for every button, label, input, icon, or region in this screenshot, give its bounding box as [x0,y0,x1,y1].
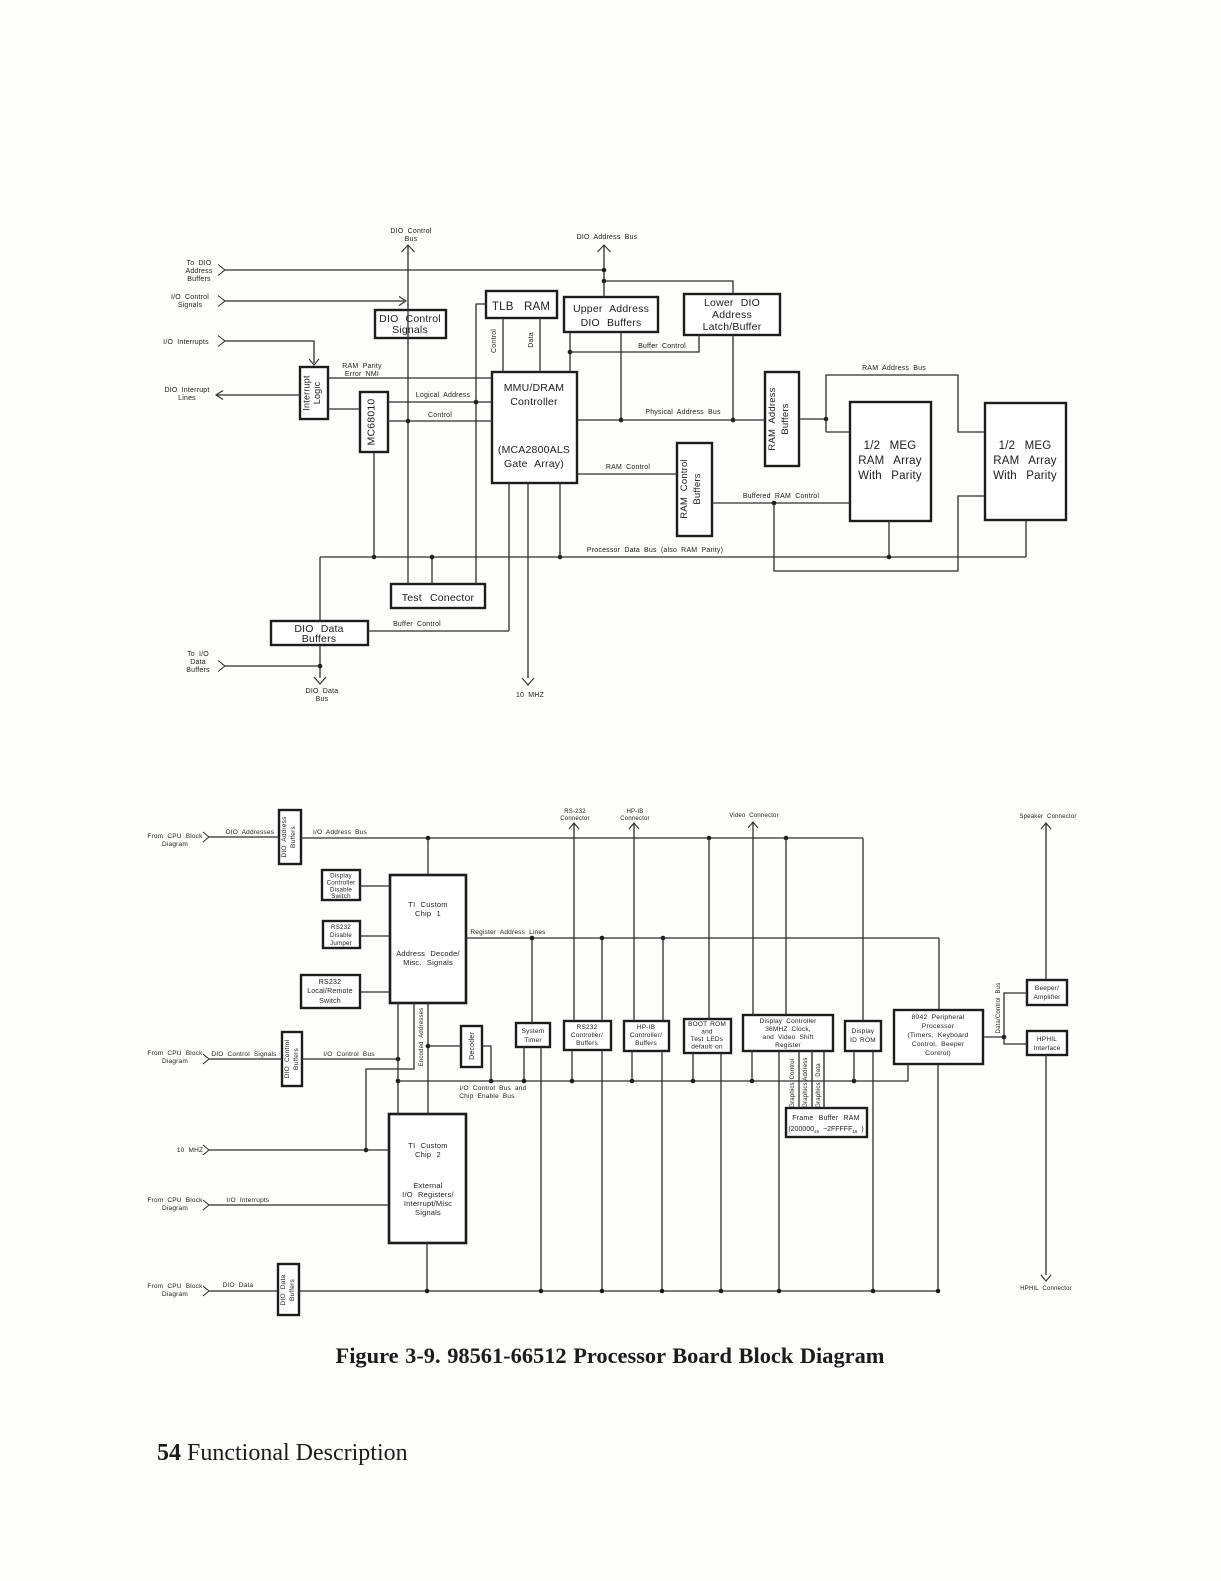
wire display ID ROM to control bus [853,1051,855,1081]
junction control bus / BOOT ROM [691,1079,696,1084]
svg-text:HPHIL: HPHIL [1037,1036,1057,1043]
junction register lines / RS232 [600,936,605,941]
block Upper Address DIO Buffers [564,297,658,332]
wire processor bus to DIO data buffers [319,557,321,621]
svg-text:I/O Control: I/O Control [171,294,209,301]
block HP-IB Controller/Buffers [624,1021,669,1051]
svg-text:Buffer Control: Buffer Control [393,621,441,628]
port I/O Interrupts [163,336,225,347]
wire Interrupt Logic to MC68010 [328,408,360,410]
svg-text:With Parity: With Parity [993,470,1057,482]
svg-text:default on: default on [691,1044,723,1051]
svg-text:1/2 MEG: 1/2 MEG [999,440,1052,452]
net Processor Data Bus [320,547,1026,557]
net DIO Control Bus (arrow up) with label [390,228,431,584]
junction RAM address bus split [824,417,829,422]
block Interrupt Logic [300,367,328,419]
junction 10MHz line [364,1148,369,1153]
svg-text:Buffers: Buffers [780,403,791,434]
junction control bus / chip-enable bus [396,1079,401,1084]
wire Graphics Control [790,1051,799,1108]
block 8042 Peripheral Processor [894,1010,983,1064]
svg-text:Interface: Interface [1033,1045,1060,1052]
svg-text:Buffers: Buffers [187,276,211,283]
wire Upper buffers to MMU [569,332,571,372]
wire I/O addr bus to TI Chip 1 [427,838,429,875]
svg-text:RAM Array: RAM Array [858,455,921,467]
junction DIO-control-bus / Control line [406,419,411,424]
svg-text:Local/Remote: Local/Remote [307,988,353,995]
junction data bus / display controller [777,1289,782,1294]
wire TLB Data line [528,318,540,372]
svg-text:Encoded Addresses: Encoded Addresses [419,1008,425,1067]
junction chip enable / decoder [489,1079,494,1084]
svg-text:Buffers: Buffers [692,473,703,504]
svg-text:RS-232: RS-232 [564,809,586,815]
block Frame Buffer RAM [786,1108,867,1137]
wire DIO Data input [209,1282,278,1291]
net DIO Address Bus (arrow up) with label [577,234,638,297]
block RS232 Controller/Buffers [564,1021,611,1050]
svg-text:Gate Array): Gate Array) [504,458,564,470]
svg-text:I/O Address Bus: I/O Address Bus [313,829,368,836]
junction physical bus / upper buffers [619,418,624,423]
junction DIO address bus / To-DIO line [602,268,607,273]
svg-text:Control: Control [428,412,452,419]
svg-text:BOOT ROM: BOOT ROM [688,1021,726,1028]
wire I/O Control Signals into DIO control bus [225,297,406,306]
wire To-DIO-Address-Buffers horizontal [225,269,604,271]
block TI Custom Chip 1 [390,875,466,1003]
wire RS232 to control bus [571,1050,573,1081]
junction data bus / display ID ROM [871,1289,876,1294]
svg-text:Control: Control [491,329,498,353]
svg-text:Bus: Bus [316,696,329,703]
block DIO Data Buffers (bottom diagram) [278,1264,299,1315]
svg-text:Error NMI: Error NMI [345,371,379,378]
svg-text:Timer: Timer [524,1037,542,1044]
svg-text:Signals: Signals [415,1208,441,1217]
svg-text:Diagram: Diagram [162,1058,188,1065]
port From CPU Block Diagram (addresses) [147,832,209,848]
wire To I/O Data Buffers [225,665,320,667]
svg-text:54 Functional Description: 54 Functional Description [157,1440,408,1466]
junction I/O control bus end [396,1057,401,1062]
net I/O Control Bus and Chip Enable Bus [398,1064,908,1100]
svg-text:Upper Address: Upper Address [573,303,649,315]
svg-text:8042 Peripheral: 8042 Peripheral [912,1014,965,1021]
junction control bus / RS232 [570,1079,575,1084]
wire system timer to data bus [540,1047,542,1291]
svg-text:Control, Beeper: Control, Beeper [912,1041,965,1048]
block System Timer [516,1023,550,1047]
svg-text:Disable: Disable [330,932,352,939]
svg-text:(Timers, Keyboard: (Timers, Keyboard [907,1032,968,1039]
svg-text:Controller: Controller [327,880,356,887]
svg-text:RAM Control: RAM Control [679,459,690,519]
svg-text:10 MHZ: 10 MHZ [177,1147,203,1154]
block Test Conector [391,584,485,608]
block RS232 Local/Remote Switch [301,975,360,1008]
wire I/O Interrupts into Interrupt Logic [225,341,319,365]
svg-text:Signals: Signals [178,302,203,309]
wire RS232 jumper to TI1 [360,935,390,937]
svg-text:Controller: Controller [510,396,558,408]
svg-text:and: and [701,1029,713,1036]
svg-text:Chip 2: Chip 2 [415,1150,441,1159]
svg-text:From CPU Block: From CPU Block [147,1283,203,1290]
wire RS-232 connector line [573,823,575,1021]
wire Graphics Address [803,1051,812,1108]
svg-text:DIO Control Signals: DIO Control Signals [211,1051,277,1058]
port 10 MHZ [177,1145,209,1155]
junction processor bus / MC68010 [372,555,377,560]
svg-text:DIO Buffers: DIO Buffers [581,317,642,329]
wire MC68010 to processor data bus [373,452,375,557]
wire DIO Interrupt Lines (arrow left) [216,391,300,400]
wire encoded addresses TI1-TI2 [419,1003,428,1114]
port From CPU Block Diagram (interrupts) [147,1197,209,1212]
svg-text:Physical Address Bus: Physical Address Bus [645,409,721,416]
wire display controller to control bus [751,1051,753,1081]
junction I/O addr bus / display controller [784,836,789,841]
svg-text:RAM Array: RAM Array [993,455,1056,467]
svg-text:Buffers: Buffers [186,667,210,674]
svg-text:Misc. Signals: Misc. Signals [403,958,453,967]
junction control bus / display ID ROM [852,1079,857,1084]
wire display controller to data bus [778,1051,780,1291]
net DIO Data Bus (bottom) [299,1290,938,1292]
svg-text:Graphics: Graphics [790,1082,796,1108]
svg-text:Decoder: Decoder [469,1032,476,1060]
wire Video connector line [752,822,754,1015]
svg-text:RS232: RS232 [331,924,351,931]
block Decoder [461,1026,482,1067]
wire HP-IB to data bus [661,1051,663,1291]
svg-text:HPHIL Connector: HPHIL Connector [1020,1286,1072,1292]
junction control bus / HP-IB [630,1079,635,1084]
block DIO Address Buffers [279,810,301,864]
svg-text:DIO Control: DIO Control [390,228,431,235]
junction buffer control tap [568,350,573,355]
block Display ID ROM [845,1021,881,1051]
svg-text:Diagram: Diagram [162,1291,188,1298]
wire TI1 10MHz tap [366,1003,414,1150]
wire Logical Address [388,392,492,402]
wire RS232 to register lines [601,938,603,1021]
svg-text:HP-IB: HP-IB [626,809,643,815]
wire BOOT ROM to data bus [720,1053,722,1291]
svg-text:Buffers: Buffers [302,633,336,645]
svg-text:Buffers: Buffers [576,1040,598,1047]
block TLB RAM [486,291,557,318]
svg-text:Buffer Control: Buffer Control [638,343,686,350]
junction processor bus / MMU [558,555,563,560]
svg-text:From CPU Block: From CPU Block [147,1050,203,1057]
svg-text:RAM Address: RAM Address [767,387,778,450]
svg-text:Display: Display [852,1028,875,1035]
svg-text:Processor: Processor [922,1023,955,1030]
svg-text:Register: Register [775,1042,801,1049]
svg-text:Lines: Lines [178,395,196,402]
svg-text:Buffers: Buffers [635,1040,657,1047]
svg-text:Jumper: Jumper [330,940,352,947]
svg-text:I/O Interrupts: I/O Interrupts [163,339,209,346]
svg-text:Control: Control [790,1059,796,1080]
svg-text:Video Connector: Video Connector [729,813,779,819]
wire HP-IB connector line [633,823,635,1021]
junction processor bus / left array [887,555,892,560]
svg-text:Data/Control Bus: Data/Control Bus [996,983,1002,1034]
block DIO Control Buffers [282,1032,302,1086]
svg-text:Switch: Switch [331,893,351,900]
wire HP-IB to control bus [631,1051,633,1081]
block TI Custom Chip 2 [389,1114,466,1243]
wire register lines drop to 8042 [938,938,940,1010]
wire RAM Control [577,464,677,474]
svg-text:Latch/Buffer: Latch/Buffer [703,321,762,333]
wire MMU buffer-control drop [508,483,510,631]
caption Figure 3-9 [336,1343,885,1368]
junction physical bus / lower latch [731,418,736,423]
block Display Controller Disable Switch [322,870,360,900]
svg-text:From CPU Block: From CPU Block [147,833,203,840]
svg-text:To I/O: To I/O [187,651,209,658]
svg-text:I/O Control Bus and: I/O Control Bus and [460,1085,527,1092]
svg-text:Logic: Logic [312,381,322,404]
net Data/Control Bus to beeper+HPHIL [983,983,1027,1044]
block 1/2 MEG RAM Array With Parity (left) [850,402,931,521]
svg-text:Chip Enable Bus: Chip Enable Bus [459,1093,515,1100]
svg-text:DIO Interrupt: DIO Interrupt [164,387,209,394]
svg-text:Controller/: Controller/ [630,1032,662,1039]
wire BOOT ROM to control bus [692,1053,694,1081]
net DIO Data Bus (arrow down) [306,645,339,703]
wire 8042 to data bus [937,1064,939,1291]
svg-text:Register Address Lines: Register Address Lines [470,929,546,936]
svg-text:From CPU Block: From CPU Block [147,1197,203,1204]
svg-text:Buffers: Buffers [290,826,297,848]
svg-text:DIO Data: DIO Data [280,1274,287,1305]
net I/O Address Bus [301,829,863,838]
svg-text:DIO Data: DIO Data [306,688,339,695]
junction encoded addresses / decoder [426,1044,431,1049]
wire display ID ROM to data bus [872,1051,874,1291]
junction data bus / HP-IB [660,1289,665,1294]
svg-text:Bus: Bus [405,236,418,243]
footer page number and section [157,1440,408,1466]
svg-text:With Parity: With Parity [858,470,922,482]
junction DIO address bus / lower-DIO branch [602,279,607,284]
svg-text:DIO Address Bus: DIO Address Bus [577,234,638,241]
svg-text:Figure 3-9. 98561-66512 Proce: Figure 3-9. 98561-66512 Processor Board … [336,1343,885,1368]
svg-text:RS232: RS232 [577,1024,598,1031]
port To I/O Data Buffers [186,651,225,674]
svg-text:I/O Control Bus: I/O Control Bus [323,1051,375,1058]
svg-text:DIO Data: DIO Data [223,1282,254,1289]
junction register lines / HP-IB [661,936,666,941]
wire RS232 to data bus [601,1050,603,1291]
port To DIO Address Buffers [185,260,225,283]
svg-text:Amplifier: Amplifier [1033,994,1061,1001]
svg-text:External: External [413,1181,442,1190]
block BOOT ROM and Test LEDs default on [684,1019,731,1053]
block RS232 Disable Jumper [323,921,360,948]
svg-text:Data: Data [528,332,535,348]
wire Upper buffers to physical bus [620,332,622,420]
svg-text:RAM Control: RAM Control [606,464,651,471]
svg-text:Test Conector: Test Conector [402,592,475,604]
port Speaker Connector [1019,814,1076,829]
svg-text:Controller/: Controller/ [571,1032,603,1039]
junction processor bus / test conector [430,555,435,560]
svg-text:Buffered RAM Control: Buffered RAM Control [743,493,820,500]
junction DIO data bus / to-IO line [318,664,323,669]
wire I/O address bus drop to Display ID ROM [862,838,864,1021]
svg-text:Connector: Connector [620,816,649,822]
svg-text:Diagram: Diagram [162,1205,188,1212]
wire Buffered RAM Control [712,493,850,503]
svg-text:ID ROM: ID ROM [850,1037,876,1044]
block 1/2 MEG RAM Array With Parity (right) [985,403,1066,520]
wire HP-IB to register lines [662,938,664,1021]
wire RAM Parity Error NMI [328,363,492,378]
svg-text:10 MHZ: 10 MHZ [516,692,545,699]
svg-text:Address: Address [185,268,212,275]
svg-text:TI Custom: TI Custom [408,900,447,909]
svg-text:RS232: RS232 [319,979,341,986]
svg-text:1/2 MEG: 1/2 MEG [864,440,917,452]
block DIO Control Signals [375,310,446,338]
svg-text:TI Custom: TI Custom [408,1141,447,1150]
svg-text:I/O Registers/: I/O Registers/ [402,1190,454,1199]
wire display disable switch to TI1 [360,885,390,887]
svg-text:Control): Control) [925,1050,951,1057]
block HPHIL Interface [1027,1031,1067,1055]
svg-text:Switch: Switch [319,998,341,1005]
net I/O Control Bus (left) [302,1051,398,1059]
wire DIO Addresses input [209,829,279,837]
svg-text:I/O Interrupts: I/O Interrupts [227,1197,270,1204]
block RAM Control Buffers [677,443,712,536]
svg-text:System: System [522,1028,545,1035]
wire left array to processor bus [888,521,890,557]
block MMU/DRAM Controller [492,372,577,483]
svg-text:Display Controller: Display Controller [760,1018,818,1025]
svg-text:Chip 1: Chip 1 [415,909,441,918]
svg-text:Beeper/: Beeper/ [1035,985,1059,992]
svg-text:DIO Addresses: DIO Addresses [226,829,275,836]
junction data bus / system timer [539,1289,544,1294]
junction data bus / 8042 [936,1289,941,1294]
wire RAM Address Bus upper route [826,365,985,432]
port RS-232 Connector [560,809,589,829]
wire RAM address into left array [826,431,850,433]
svg-text:Graphics: Graphics [803,1082,809,1108]
svg-text:Connector: Connector [560,816,589,822]
wire Lower latch to physical bus [732,335,734,420]
svg-text:Speaker Connector: Speaker Connector [1019,814,1076,820]
svg-text:Processor Data Bus (also RAM P: Processor Data Bus (also RAM Parity) [587,547,723,554]
net Register Address Lines [466,929,939,938]
port DIO Interrupt Lines [164,387,209,402]
svg-text:Address: Address [803,1057,809,1080]
wire BOOT ROM to I/O address bus [708,838,710,1019]
wire Control (MC68010 to MMU) [388,412,492,421]
svg-text:Frame Buffer RAM: Frame Buffer RAM [792,1115,859,1122]
junction I/O addr bus / BOOT ROM [707,836,712,841]
svg-text:Lower DIO: Lower DIO [704,297,760,309]
junction control bus / system timer [522,1079,527,1084]
svg-text:Signals: Signals [392,324,428,336]
wire TI2 to data bus [426,1243,428,1291]
wire encoded addresses to Decoder [428,1045,461,1047]
port HP-IB Connector [620,809,649,829]
svg-text:Logical Address: Logical Address [416,392,471,399]
wire TLB RAM left tap down to Test Conector [476,304,486,584]
svg-text:MC68010: MC68010 [366,399,378,446]
svg-text:36MHZ Clock,: 36MHZ Clock, [765,1026,811,1033]
junction I/O addr bus / TI1 [426,836,431,841]
svg-text:Graphics: Graphics [816,1082,822,1108]
wire I/O Interrupts input [209,1197,389,1205]
wire Buffer Control (lower) [368,621,509,631]
port I/O Control Signals [171,294,225,309]
block Beeper/Amplifier [1027,980,1067,1005]
wire TI1 to TI2 control [397,1003,399,1114]
svg-text:Data: Data [190,659,206,666]
block MC68010 [360,392,388,452]
svg-text:Buffers: Buffers [293,1048,300,1070]
wire buffered RAM control to right array [774,496,985,571]
svg-text:HP-IB: HP-IB [637,1024,655,1031]
port HPHIL Connector [1020,1275,1072,1292]
wire RAM Address Buffers output [799,418,826,420]
wire RS232 local/remote to TI1 [360,991,390,993]
svg-text:Interrupt/Misc: Interrupt/Misc [404,1199,452,1208]
wire Graphics Data [816,1051,824,1108]
svg-text:Buffers: Buffers [289,1279,296,1301]
port From CPU Block Diagram (control) [147,1050,209,1065]
svg-text:TLB RAM: TLB RAM [492,301,550,313]
block RAM Address Buffers [765,372,799,466]
junction logical address / TLB tap [474,400,479,405]
svg-text:RAM Parity: RAM Parity [342,363,382,370]
junction buffered RAM control split [772,501,777,506]
wire Decoder to chip enable bus [482,1046,491,1081]
svg-text:Address: Address [712,309,752,321]
wire TLB Control line [491,318,503,372]
svg-text:Interrupt: Interrupt [302,375,312,411]
wire HPHIL to connector [1045,1055,1047,1275]
block Lower DIO Address Latch/Buffer [684,294,780,335]
wire DIO Control Signals input [209,1051,282,1059]
port From CPU Block Diagram (data) [147,1283,209,1298]
wire display controller to I/O address bus [785,838,787,1015]
wire branch to Lower DIO latch [604,281,733,294]
svg-text:To DIO: To DIO [187,260,212,267]
wire MMU to processor data bus [559,483,561,557]
wire Physical Address Bus [577,409,765,420]
svg-text:Display: Display [330,873,352,880]
block Display Controller 36MHZ Clock and Video Shift Register [743,1015,833,1051]
svg-text:DIO Address: DIO Address [281,816,288,858]
wire Buffer Control (upper) [570,335,699,352]
svg-text:and Video Shift: and Video Shift [763,1034,814,1041]
svg-text:MMU/DRAM: MMU/DRAM [504,382,565,394]
wire 10 MHZ input [209,1149,389,1151]
wire Speaker connector line [1045,823,1047,980]
